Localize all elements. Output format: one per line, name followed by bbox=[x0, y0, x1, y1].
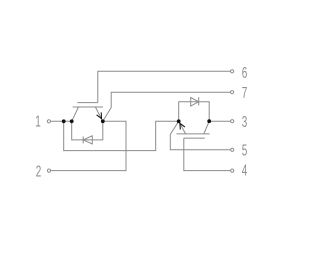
terminal 4 circle bbox=[231, 169, 234, 172]
svg-text:3: 3 bbox=[242, 112, 248, 130]
igbt Q2 emitter diagonal bbox=[179, 121, 186, 134]
igbt Q1 collector diagonal bbox=[72, 107, 79, 121]
igbt Q1 gate bar bbox=[77, 102, 98, 104]
wire left emitter to terminal 2 bbox=[51, 121, 126, 170]
svg-text:2: 2 bbox=[36, 162, 42, 180]
diode D1 cathode bar bbox=[82, 136, 84, 143]
diode D2 bridge wire bbox=[179, 102, 210, 122]
svg-text:4: 4 bbox=[242, 161, 248, 179]
junction node dot right collector bbox=[207, 119, 211, 123]
igbt Q1 channel bar bbox=[73, 106, 103, 108]
terminal 7 circle bbox=[231, 91, 234, 94]
igbt Q2 collector diagonal bbox=[204, 121, 209, 134]
junction node dot right emitter bbox=[177, 119, 181, 123]
igbt Q2 gate bar bbox=[184, 137, 205, 139]
diode D2 triangle bbox=[191, 98, 199, 107]
terminal 3 circle bbox=[231, 120, 234, 123]
diode D1 triangle bbox=[83, 136, 92, 144]
wire right gate to terminal 4 bbox=[184, 138, 231, 171]
wire left gate to terminal 6 bbox=[98, 71, 231, 102]
wire right aux emitter to terminal 5 bbox=[170, 121, 230, 150]
igbt Q1 emitter diagonal bbox=[95, 107, 102, 121]
terminal 5 circle bbox=[231, 148, 234, 151]
igbt Q2 channel bar bbox=[177, 133, 210, 135]
svg-text:7: 7 bbox=[242, 84, 248, 102]
diode D2 cathode bar bbox=[198, 97, 200, 105]
junction node dot B bbox=[70, 119, 74, 123]
junction node dot left emitter bbox=[101, 119, 105, 123]
svg-text:5: 5 bbox=[242, 141, 248, 159]
terminal 1 circle bbox=[47, 120, 50, 123]
wire right collector to terminal 3 bbox=[209, 120, 230, 122]
igbt Q2 emitter arrow bbox=[180, 123, 185, 129]
svg-text:6: 6 bbox=[242, 63, 248, 81]
wire terminal 1 to node bbox=[51, 120, 72, 122]
terminal 2 circle bbox=[47, 169, 50, 172]
diode D1 bridge wire bbox=[72, 121, 103, 140]
svg-text:1: 1 bbox=[35, 112, 41, 130]
junction node dot A bbox=[62, 119, 66, 123]
terminal 6 circle bbox=[231, 70, 234, 73]
wire left aux emitter to terminal 7 bbox=[103, 92, 231, 121]
wire node1 to right emitter (midpoint link) bbox=[64, 121, 179, 150]
igbt Q1 emitter arrow bbox=[97, 112, 102, 118]
